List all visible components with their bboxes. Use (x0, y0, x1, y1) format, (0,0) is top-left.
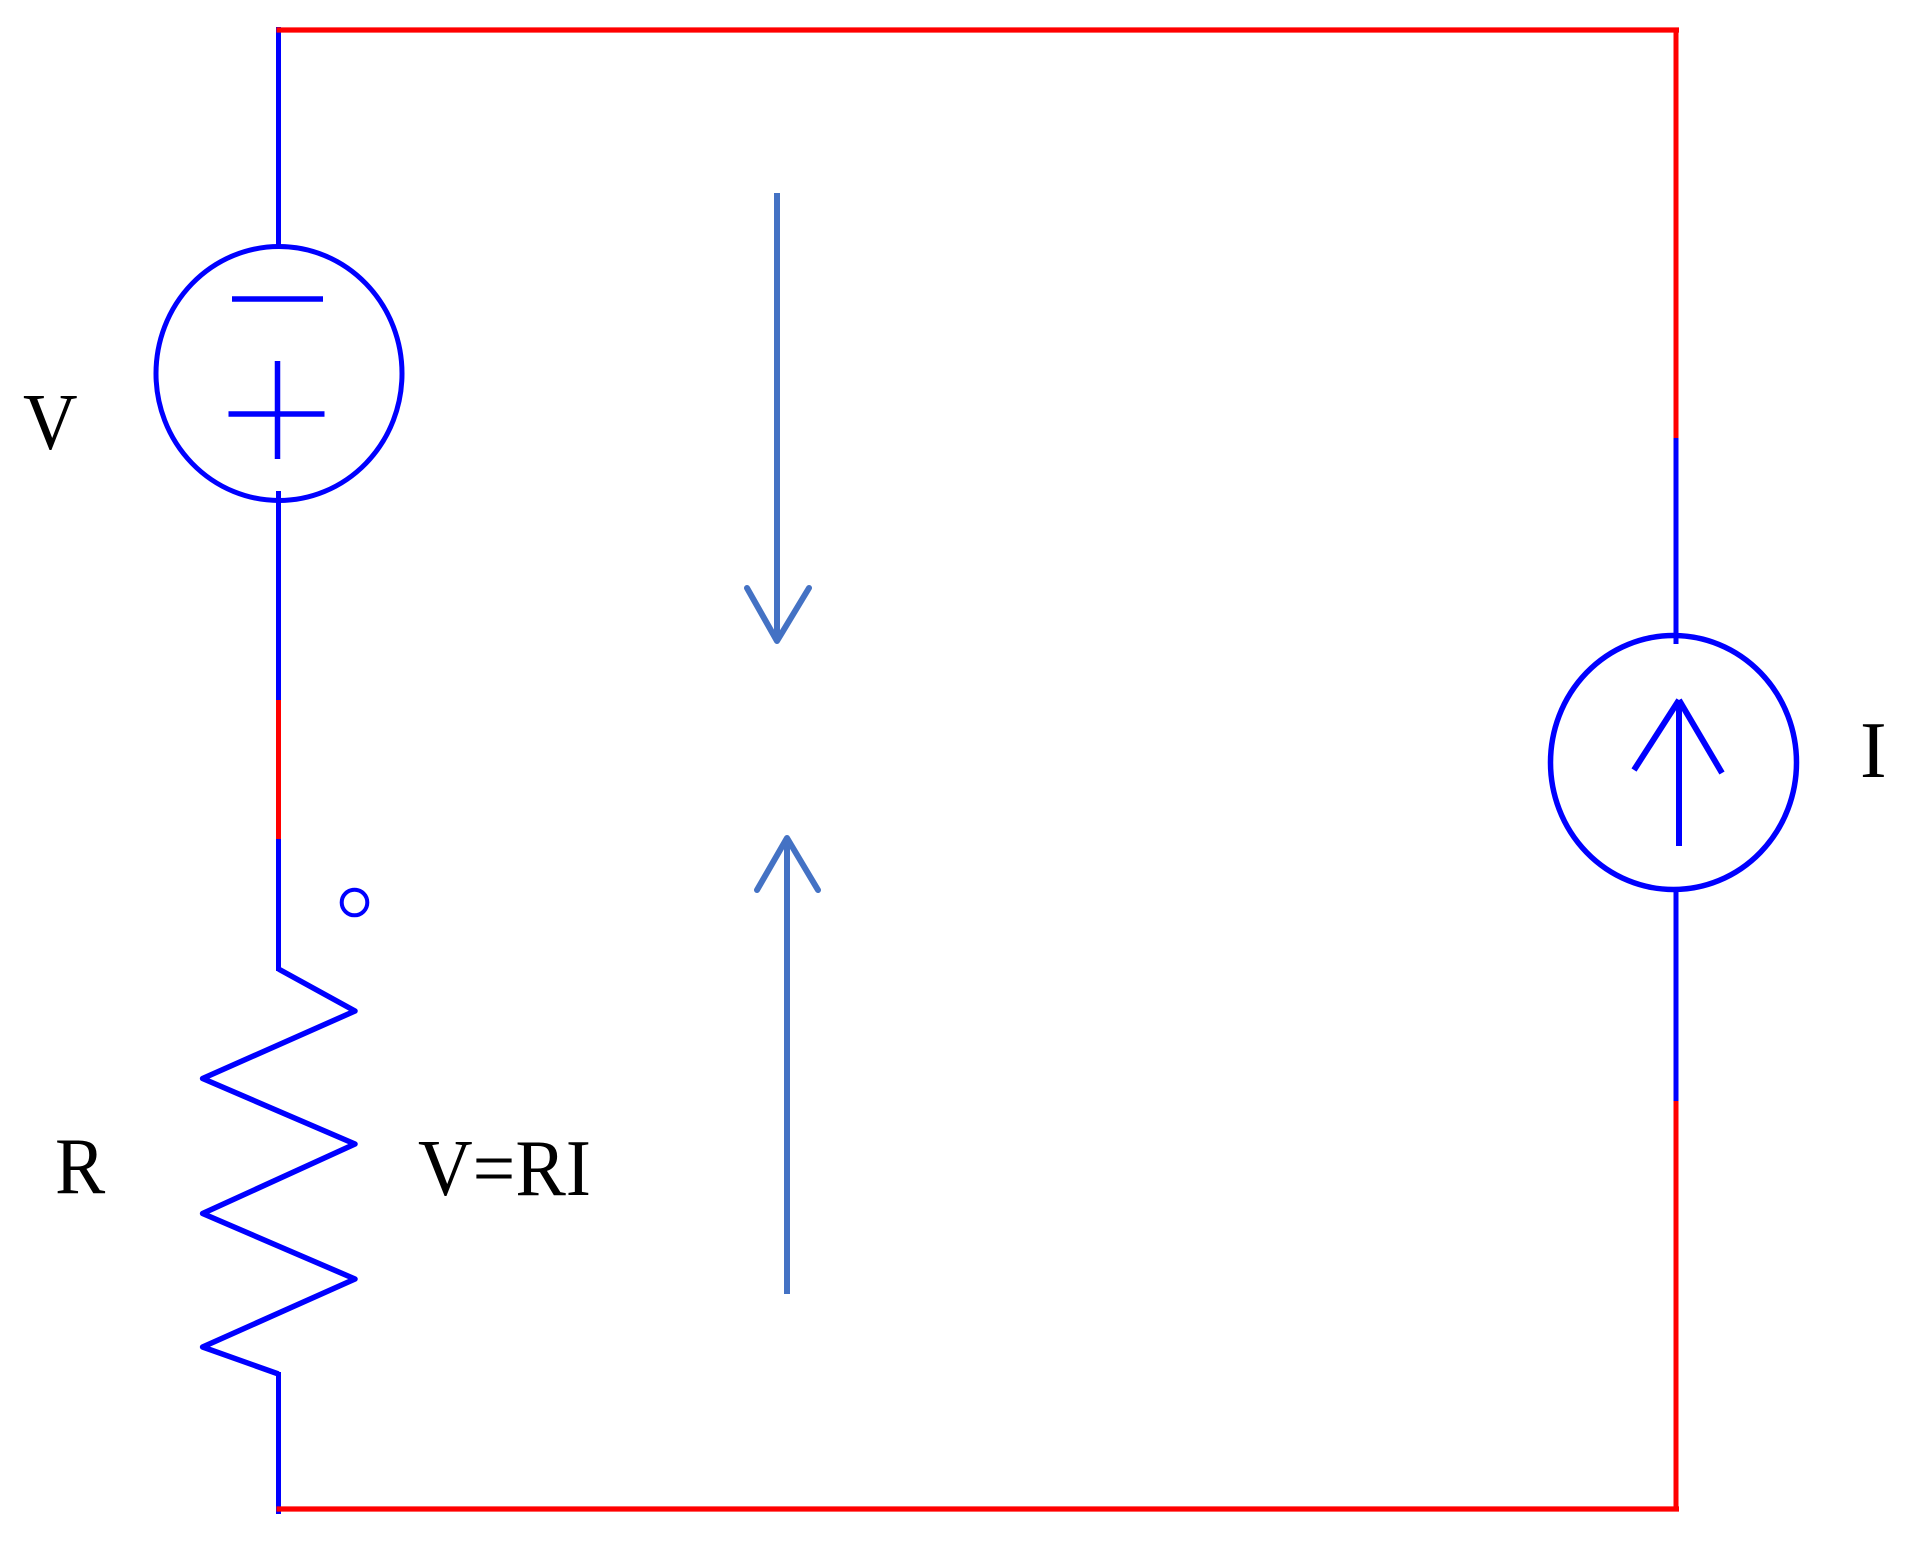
arrow inside I source (left barb) (1634, 700, 1679, 770)
minus sign inside V source (232, 296, 323, 302)
wire: right red segment bottom (1674, 1101, 1679, 1511)
current direction arrow (up, lower middle) (757, 838, 818, 1294)
wire: left bottom blue segment (resistor to bottom rail) (276, 1372, 281, 1514)
svg-text:V=RI: V=RI (418, 1125, 591, 1213)
svg-text:V: V (23, 379, 78, 467)
current source I (circle) (1551, 636, 1797, 890)
current direction arrow (down, upper middle) (747, 193, 809, 641)
wire: top red rail (277, 27, 1680, 32)
arrow inside I source (shaft) (1676, 701, 1682, 846)
plus sign inside V source (horizontal) (229, 411, 325, 417)
wire: right blue segment below I source (1674, 890, 1679, 1101)
wire: bottom red rail (277, 1506, 1680, 1511)
svg-text:R: R (55, 1123, 106, 1211)
svg-text:I: I (1860, 707, 1887, 795)
voltage source V (circle) (156, 247, 402, 501)
wire: red segment on left branch (276, 700, 281, 839)
plus sign inside V source (vertical) (275, 361, 281, 459)
arrow inside I source (right barb) (1679, 700, 1722, 773)
node marker (small circle) (342, 890, 368, 916)
wire: right blue segment above I source (1674, 438, 1679, 644)
resistor R (zigzag) (203, 969, 355, 1374)
wire: left top blue segment (top rail to V source) (276, 27, 281, 247)
wire: blue segment below V source (276, 491, 281, 971)
wire: right red segment top (1674, 28, 1679, 438)
